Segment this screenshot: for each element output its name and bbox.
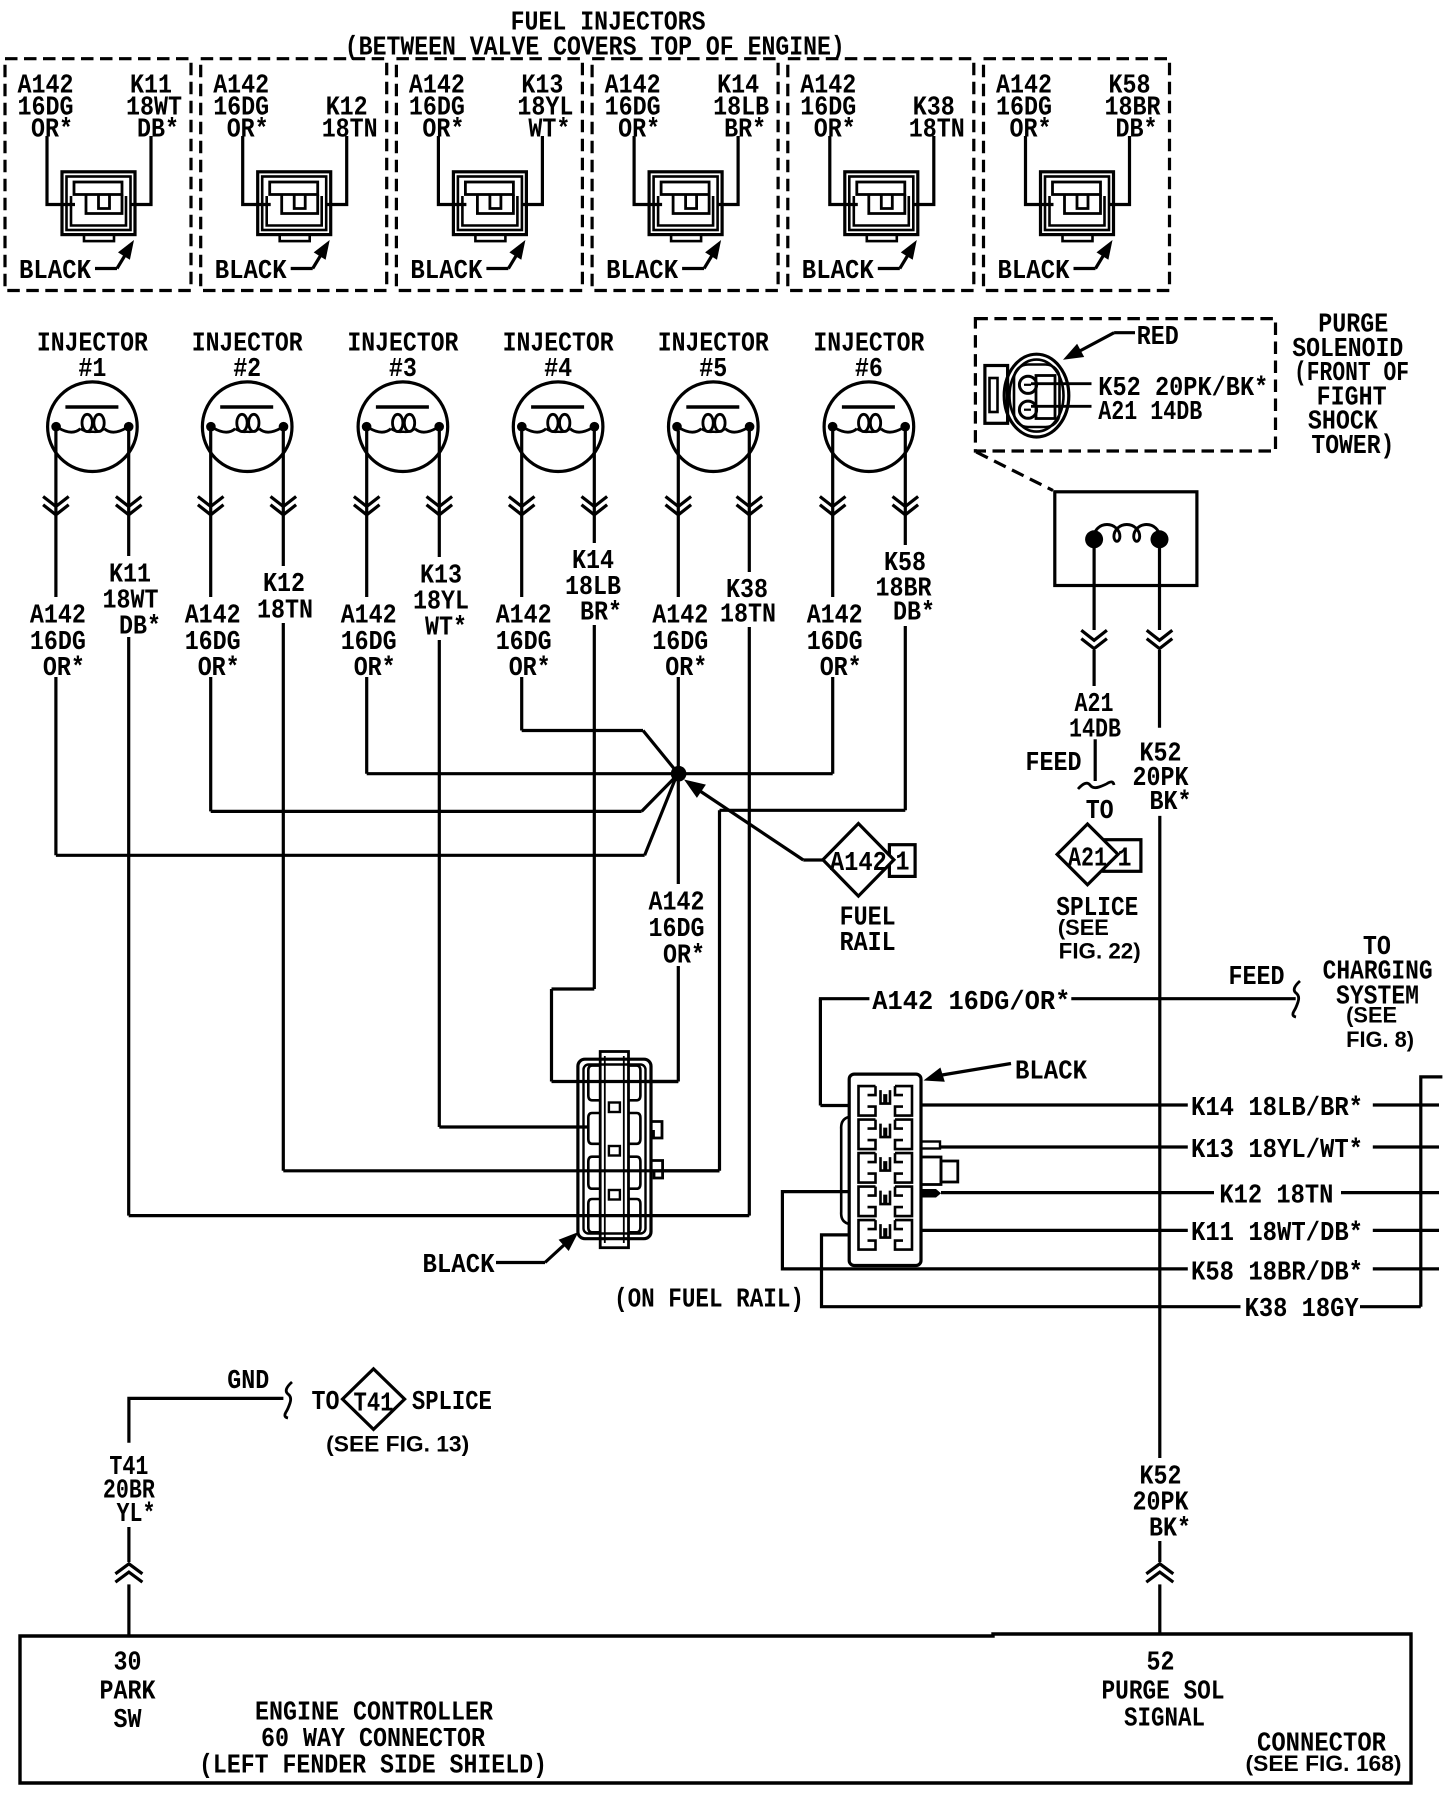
svg-text:A142: A142 (807, 600, 863, 630)
splice symbol A21 1 (1104, 840, 1141, 872)
svg-text:30: 30 (114, 1647, 142, 1677)
svg-text:#3: #3 (389, 354, 417, 384)
svg-text:SW: SW (114, 1705, 142, 1735)
svg-text:OR*: OR* (31, 114, 73, 144)
svg-text:BK*: BK* (1149, 1513, 1191, 1543)
svg-text:BLACK: BLACK (802, 256, 874, 286)
svg-text:OR*: OR* (198, 653, 240, 683)
svg-text:18TN: 18TN (720, 599, 776, 629)
K58 row wire (right) (1373, 1267, 1439, 1270)
svg-text:A142: A142 (496, 600, 552, 630)
injector connector detail box K11 (5, 59, 191, 291)
svg-text:(LEFT FENDER SIDE SHIELD): (LEFT FENDER SIDE SHIELD) (199, 1750, 547, 1780)
right side tabs (921, 1142, 940, 1149)
svg-text:18TN: 18TN (909, 114, 965, 144)
purge solenoid connector detail box (975, 319, 1275, 451)
svg-text:K58 18BR/DB*: K58 18BR/DB* (1191, 1257, 1363, 1287)
K52 wire to controller (1158, 1541, 1161, 1562)
splice symbol A142 1 (fuel rail) (803, 858, 823, 861)
svg-text:DB*: DB* (1116, 114, 1158, 144)
svg-text:18TN: 18TN (322, 114, 378, 144)
svg-text:TO: TO (312, 1387, 340, 1417)
injector connector detail box K12 (201, 59, 387, 291)
K38 row wire (right) (1360, 1305, 1421, 1308)
svg-text:#6: #6 (855, 354, 883, 384)
svg-text:OR*: OR* (509, 653, 551, 683)
svg-text:DB*: DB* (137, 114, 179, 144)
A142 entry (820, 1104, 849, 1107)
engine harness connector (10-way) (849, 1074, 921, 1265)
svg-text:K38 18GY: K38 18GY (1245, 1294, 1359, 1324)
svg-text:BLACK: BLACK (423, 1250, 495, 1280)
svg-text:DB*: DB* (119, 611, 161, 641)
wire W7 A142 injector 4 (520, 431, 523, 597)
svg-text:16DG: 16DG (649, 914, 705, 944)
wire leads (438, 136, 466, 205)
T41 wire to controller (127, 1527, 130, 1562)
svg-text:PURGE SOL: PURGE SOL (1102, 1676, 1225, 1706)
K13 row wire (940, 1145, 1188, 1148)
splice arrow to junction (697, 789, 803, 860)
svg-text:A21: A21 (1068, 843, 1107, 873)
injector connector detail box K38 (788, 59, 974, 291)
svg-text:OR*: OR* (663, 940, 705, 970)
wire W3 A142 injector 2 (209, 431, 212, 597)
connector symbol (62, 172, 135, 235)
right bus (1421, 1077, 1443, 1307)
svg-text:OR*: OR* (820, 653, 862, 683)
svg-text:GND: GND (227, 1366, 269, 1396)
svg-text:SPLICE: SPLICE (412, 1387, 492, 1417)
feed wire A142 16DG/OR* (819, 997, 870, 1000)
shared horizontal K12/K58 row (283, 1169, 719, 1172)
purge solenoid coil box (1055, 492, 1197, 586)
svg-text:RAIL: RAIL (840, 928, 896, 958)
connector symbol (258, 172, 331, 235)
svg-text:(SEE FIG. 13): (SEE FIG. 13) (326, 1431, 469, 1456)
wire leads (1026, 136, 1054, 205)
svg-text:BR*: BR* (580, 597, 622, 627)
svg-text:K11 18WT/DB*: K11 18WT/DB* (1191, 1218, 1363, 1248)
svg-text:WT*: WT* (425, 612, 467, 642)
svg-text:PARK: PARK (100, 1676, 156, 1706)
K52 wire down (1158, 816, 1161, 1458)
svg-text:#1: #1 (78, 354, 106, 384)
svg-text:K12: K12 (263, 569, 305, 599)
svg-text:(ON FUEL RAIL): (ON FUEL RAIL) (614, 1284, 804, 1314)
chevrons below solenoid (1081, 630, 1107, 640)
svg-text:FIG. 22): FIG. 22) (1059, 939, 1141, 964)
solenoid wires down (1092, 548, 1095, 630)
K14 row wire (921, 1103, 1188, 1106)
svg-text:A142: A142 (652, 600, 708, 630)
svg-text:WT*: WT* (528, 114, 570, 144)
svg-text:OR*: OR* (665, 653, 707, 683)
svg-text:#2: #2 (233, 354, 261, 384)
svg-text:#5: #5 (699, 354, 727, 384)
svg-text:60 WAY CONNECTOR: 60 WAY CONNECTOR (261, 1724, 485, 1754)
K38 loop wire (822, 1235, 1241, 1307)
svg-text:A142 16DG/OR*: A142 16DG/OR* (872, 987, 1070, 1017)
svg-text:K12 18TN: K12 18TN (1219, 1180, 1333, 1210)
svg-text:OR*: OR* (814, 114, 856, 144)
svg-text:K13 18YL/WT*: K13 18YL/WT* (1191, 1135, 1363, 1165)
svg-text:52: 52 (1147, 1647, 1175, 1677)
svg-text:YL*: YL* (117, 1499, 156, 1529)
svg-text:RED: RED (1137, 322, 1179, 352)
wire W1 A142 injector 1 (54, 431, 57, 597)
pin leader lines (1031, 382, 1092, 385)
connector left tab (985, 366, 1008, 424)
svg-text:OR*: OR* (227, 114, 269, 144)
shared horizontal K11/K38 row (129, 1214, 750, 1217)
svg-text:(SEE: (SEE (1346, 1002, 1397, 1027)
K11 row wire (921, 1229, 1188, 1232)
junction node A142 (671, 766, 687, 782)
svg-text:BLACK: BLACK (606, 256, 678, 286)
connector symbol (453, 172, 526, 235)
svg-text:1: 1 (1118, 843, 1132, 873)
wire leads (243, 136, 271, 205)
svg-text:K14 18LB/BR*: K14 18LB/BR* (1191, 1093, 1363, 1123)
svg-text:OR*: OR* (43, 653, 85, 683)
svg-text:TOWER): TOWER) (1311, 431, 1394, 461)
engine controller 60-way connector box (20, 1634, 1411, 1783)
svg-text:1: 1 (896, 847, 910, 877)
svg-text:OR*: OR* (1010, 114, 1052, 144)
svg-text:A142: A142 (341, 600, 397, 630)
svg-text:OR*: OR* (618, 114, 660, 144)
coil (1085, 530, 1103, 548)
K12 row wire (941, 1191, 1214, 1194)
svg-text:A142: A142 (649, 887, 705, 917)
svg-text:BLACK: BLACK (1015, 1057, 1087, 1087)
pin stub wires (647, 1080, 678, 1083)
connector symbol (649, 172, 722, 235)
wire W9 A142 injector 5 / junction feed (677, 431, 680, 597)
wire W11 A142 injector 6 (831, 431, 834, 597)
svg-text:BLACK: BLACK (410, 256, 482, 286)
wire W2 K11 (127, 431, 130, 556)
svg-text:FEED: FEED (1026, 748, 1082, 778)
svg-text:OR*: OR* (354, 653, 396, 683)
svg-text:#4: #4 (544, 354, 572, 384)
K58 loop wire (782, 1192, 1187, 1269)
wire W4 K12 (282, 431, 285, 566)
wire W8 K14 (593, 431, 596, 543)
wire leads (830, 136, 858, 205)
svg-text:OR*: OR* (422, 114, 464, 144)
wire W10 K38 (748, 431, 751, 572)
right-side hooks (651, 1122, 662, 1139)
svg-text:(SEE: (SEE (1058, 915, 1109, 940)
svg-text:ENGINE CONTROLLER: ENGINE CONTROLLER (255, 1697, 493, 1727)
svg-text:BLACK: BLACK (215, 256, 287, 286)
2-pin oval connector (1004, 354, 1069, 437)
svg-text:18TN: 18TN (257, 595, 313, 625)
svg-text:BLACK: BLACK (998, 256, 1070, 286)
squiggle break (A21 feed) (1078, 782, 1114, 789)
svg-text:DB*: DB* (893, 597, 935, 627)
splice symbol T41 (343, 1369, 405, 1430)
wire W6 K13 (438, 431, 441, 557)
GND wire (129, 1398, 284, 1442)
svg-text:A21 14DB: A21 14DB (1098, 397, 1202, 427)
svg-text:TO: TO (1086, 796, 1114, 826)
fuel rail connector (8-way) (578, 1059, 651, 1239)
inline connector chevrons (injector wires) (43, 497, 69, 507)
squiggle break (GND) (285, 1382, 292, 1418)
connector symbol (1041, 172, 1114, 235)
injector connector detail box K14 (592, 59, 778, 291)
svg-text:(SEE FIG. 168): (SEE FIG. 168) (1246, 1751, 1402, 1776)
svg-text:BK*: BK* (1150, 787, 1192, 817)
connector symbol (845, 172, 918, 235)
wire W5 A142 injector 3 (365, 431, 368, 597)
wire leads (47, 136, 75, 205)
svg-text:BR*: BR* (724, 114, 766, 144)
svg-text:SIGNAL: SIGNAL (1124, 1703, 1205, 1733)
svg-text:FIG. 8): FIG. 8) (1346, 1027, 1414, 1052)
A21 wire to splice (1094, 739, 1097, 781)
svg-text:A142: A142 (30, 600, 86, 630)
injector connector detail box K58 (984, 59, 1170, 291)
squiggle break (charging feed) (1293, 981, 1300, 1017)
svg-text:A142: A142 (830, 848, 887, 878)
injector connector detail box K13 (396, 59, 582, 291)
svg-text:FEED: FEED (1229, 962, 1285, 992)
wire leads (634, 136, 662, 205)
svg-text:A142: A142 (185, 600, 241, 630)
svg-text:T41: T41 (354, 1388, 394, 1418)
dashed leader to solenoid box (976, 452, 1053, 491)
wire W12 K58 (904, 431, 907, 545)
svg-text:BLACK: BLACK (19, 256, 91, 286)
